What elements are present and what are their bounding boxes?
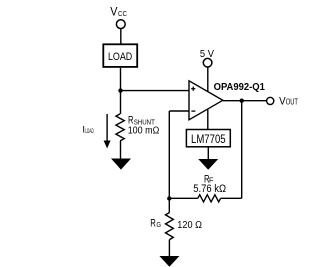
svg-text:R: R [150,217,156,229]
wire op-amp to LM7705 [207,109,209,130]
resistor RG [166,213,174,240]
svg-text:120 Ω: 120 Ω [177,219,202,231]
load LOAD [103,44,137,67]
wire noninverting input [121,90,190,92]
svg-text:LOAD: LOAD [108,51,132,63]
svg-text:OUT: OUT [286,97,298,107]
wire output [223,100,266,102]
label VOUT [279,95,298,107]
svg-text:CC: CC [118,9,127,18]
label RF value [193,174,226,195]
node B junction [167,196,171,200]
regulator LM7705 [186,130,230,147]
node A junction [118,88,122,92]
wire node B to RG [168,199,170,213]
ground G2 [198,159,218,170]
resistor RSHUNT [116,114,124,141]
wire RG to ground [168,240,170,256]
wire LM7705 to ground [207,147,209,159]
wire VCC to LOAD [120,29,122,44]
terminal VCC [116,20,125,29]
wire inverting input horizontal [169,110,189,112]
svg-text:G: G [156,220,161,229]
wire RF right lead [221,197,242,199]
wire LOAD to node A [120,68,122,91]
terminal VOUT [267,97,274,104]
wire RSHUNT to ground [120,141,122,159]
ground G3 [159,256,179,267]
node output junction [240,99,244,103]
wire node A to RSHUNT [120,91,122,114]
wire 5V to op-amp [207,67,209,91]
wire inverting input vertical [168,111,170,198]
resistor RF [198,195,221,202]
svg-text:LOAD: LOAD [85,128,94,135]
terminal 5V [203,58,212,67]
label RSHUNT value [128,115,160,137]
svg-text:100 mΩ: 100 mΩ [128,125,160,136]
wire RF left lead [169,197,198,199]
svg-text:LM7705: LM7705 [191,132,226,146]
svg-text:OPA992-Q1: OPA992-Q1 [214,81,265,93]
ground G1 [111,159,131,170]
label ILOAD [82,125,93,136]
svg-text:V: V [110,7,118,19]
wire feedback vertical [241,101,243,199]
node VCC label [110,7,127,19]
op-amp U1 OPA992-Q1 [189,81,223,120]
svg-text:5.76 kΩ: 5.76 kΩ [193,183,226,195]
label RG value [150,217,202,231]
current arrow ILOAD [104,114,111,149]
